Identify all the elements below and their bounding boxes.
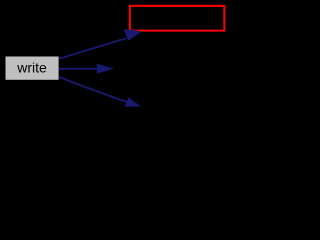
- arrowhead: [124, 29, 140, 40]
- svg-text:write: write: [16, 59, 47, 75]
- edge write to bottom hidden node: [59, 77, 140, 107]
- wire: [59, 38, 127, 59]
- node truncated (red outlined box): [130, 6, 224, 31]
- edge write to red node: [59, 29, 141, 59]
- edge write to middle hidden node: [59, 64, 113, 73]
- wire: [59, 77, 127, 102]
- arrowhead: [125, 98, 140, 107]
- wire: [59, 68, 99, 70]
- arrowhead: [97, 64, 113, 73]
- node write (gray box): [6, 57, 59, 80]
